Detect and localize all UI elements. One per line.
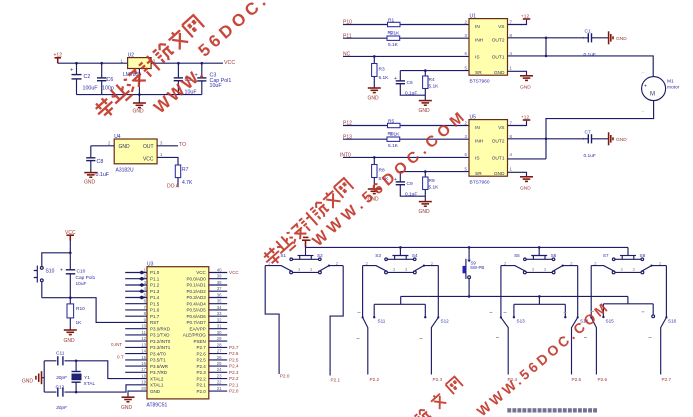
- svg-text:BTS7960: BTS7960: [470, 78, 490, 84]
- ground GND C7 (rotated): [609, 132, 628, 145]
- svg-text:25: 25: [217, 361, 222, 366]
- svg-text:OUT2: OUT2: [492, 38, 505, 44]
- svg-text:P1.5: P1.5: [150, 301, 160, 306]
- wire R4 top: [424, 71, 426, 76]
- svg-text:0.1uF: 0.1uF: [584, 52, 596, 58]
- wire C6 bottom: [101, 81, 103, 95]
- ground GND R4: [419, 101, 432, 114]
- resistor R1: [388, 17, 401, 26]
- svg-text:P2.1: P2.1: [197, 383, 207, 388]
- svg-text:37: 37: [217, 286, 222, 291]
- svg-text:+: +: [60, 268, 63, 274]
- svg-text:+: +: [583, 36, 586, 41]
- wire input rail: [58, 62, 128, 64]
- svg-text:C6: C6: [107, 77, 114, 83]
- svg-text:R5: R5: [388, 118, 394, 124]
- svg-text:30: 30: [217, 330, 222, 335]
- ground GND R8: [368, 189, 381, 203]
- svg-text:GND: GND: [520, 85, 531, 91]
- svg-text:GND: GND: [150, 389, 161, 394]
- svg-text:5.1K: 5.1K: [388, 143, 399, 149]
- power port VCC matrix rail: [302, 237, 311, 247]
- node junction R9: [424, 170, 427, 173]
- ground GND U1: [520, 76, 533, 91]
- svg-text:100uF: 100uF: [83, 86, 99, 92]
- svg-text:R9: R9: [429, 178, 435, 184]
- capacitor C10 Cap Pol1: [60, 268, 96, 288]
- IC U1 BTS7960: [465, 14, 513, 85]
- svg-text:A3182U: A3182U: [116, 168, 134, 174]
- IC U3 AT89C51: [147, 262, 209, 409]
- svg-text:5.1K: 5.1K: [390, 30, 401, 36]
- resistor R3: [372, 64, 390, 81]
- svg-text:TO: TO: [179, 142, 186, 148]
- svg-text:+: +: [70, 68, 73, 74]
- svg-text:P2.4: P2.4: [229, 364, 239, 369]
- node junction R3: [373, 55, 376, 58]
- wire C8 bottom: [90, 161, 92, 173]
- wire unit1 left to P2.0: [265, 266, 279, 374]
- capacitor C12: [56, 385, 69, 411]
- wires MCU right pins: [209, 273, 227, 392]
- svg-text:VCC: VCC: [224, 60, 235, 66]
- svg-text:P2.7: P2.7: [197, 345, 207, 350]
- capacitor C8: [86, 158, 110, 178]
- svg-text:−: −: [642, 109, 645, 114]
- svg-text:VCC: VCC: [229, 270, 239, 275]
- capacitor C2: [70, 68, 98, 92]
- svg-text:P3.5/T1: P3.5/T1: [150, 358, 166, 363]
- svg-text:P2.5: P2.5: [229, 357, 239, 362]
- power port +12: [54, 53, 63, 64]
- wire U4 pin3 OUT: [157, 145, 178, 147]
- svg-text:INH: INH: [475, 38, 484, 44]
- power port +12 U5: [521, 115, 530, 121]
- svg-text:0.1uF: 0.1uF: [96, 172, 110, 178]
- svg-text:SW-PB: SW-PB: [470, 265, 484, 270]
- svg-text:P1.7: P1.7: [150, 314, 160, 319]
- svg-text:P2.0: P2.0: [229, 389, 239, 394]
- capacitor C1: [583, 28, 596, 58]
- svg-text:34: 34: [217, 305, 222, 310]
- svg-text:S7: S7: [603, 253, 609, 258]
- svg-text:OUT2: OUT2: [492, 139, 505, 145]
- wire U5 pin1 GND: [508, 172, 527, 177]
- svg-text:OUT1: OUT1: [492, 156, 505, 162]
- caption title text: [507, 408, 597, 412]
- bus bar over S15/S16: [603, 296, 653, 317]
- wire C6 top: [101, 63, 103, 78]
- switch S13: [500, 266, 525, 382]
- resistor R6: [387, 137, 400, 149]
- svg-text:32: 32: [217, 317, 222, 322]
- wire S10 bottom: [41, 282, 43, 298]
- resistor R7: [175, 165, 193, 186]
- svg-text:U3: U3: [147, 262, 154, 268]
- svg-text:0.INT: 0.INT: [111, 342, 122, 347]
- svg-text:RST: RST: [150, 320, 159, 325]
- svg-text:22: 22: [217, 380, 222, 385]
- wire U4 pin1 VCC: [157, 157, 178, 165]
- pushbutton pair S3/S4: [375, 247, 418, 260]
- wire U1 pin7 VS: [508, 20, 527, 25]
- svg-text:Cap Pol1: Cap Pol1: [76, 275, 96, 281]
- svg-text:P2.3: P2.3: [433, 377, 443, 382]
- svg-text:C7: C7: [585, 129, 591, 135]
- svg-text:GND: GND: [419, 108, 431, 114]
- rocker switch contacts unit 4: [591, 261, 666, 274]
- wire OUT2-OUT1 tie: [545, 38, 547, 56]
- wire R8 top: [373, 157, 375, 164]
- ground GND regulator: [133, 103, 146, 115]
- wire C5 top: [177, 63, 179, 78]
- svg-text:S8: S8: [640, 253, 646, 258]
- svg-text:C8: C8: [97, 159, 104, 165]
- svg-text:U2: U2: [128, 53, 135, 59]
- svg-text:S2: S2: [317, 253, 323, 258]
- bus bar over S13/S14: [514, 296, 565, 317]
- node junction OUT2 U5: [545, 138, 548, 141]
- svg-text:S5: S5: [514, 253, 520, 258]
- wire R3 bottom: [373, 77, 375, 89]
- svg-text:10uF: 10uF: [210, 83, 223, 89]
- svg-text:S16: S16: [668, 318, 677, 323]
- crystal circuit top wire: [44, 361, 147, 379]
- wire NC line: [343, 55, 469, 57]
- svg-text:38: 38: [217, 280, 222, 285]
- capacitor C9: [394, 177, 417, 197]
- svg-text:P2.6: P2.6: [598, 377, 608, 382]
- svg-text:P1.2: P1.2: [150, 283, 160, 288]
- svg-text:XTAL1: XTAL1: [150, 383, 164, 388]
- wire R10 bottom: [69, 318, 71, 330]
- wire to switch S10: [42, 253, 71, 267]
- wire SR line U5 pin5: [400, 171, 469, 173]
- svg-text:P0.5/AD5: P0.5/AD5: [187, 308, 207, 313]
- pin numbers left: [141, 267, 146, 391]
- node junction OUT2: [545, 37, 548, 40]
- svg-text:BTS7960: BTS7960: [470, 179, 490, 185]
- svg-text:OUT: OUT: [143, 144, 154, 150]
- IC U5 BTS7960: [465, 115, 513, 186]
- svg-text:C9: C9: [407, 181, 413, 187]
- svg-text:P1.4: P1.4: [150, 295, 160, 300]
- wire C3 top: [201, 63, 203, 78]
- svg-text:C2: C2: [84, 74, 91, 80]
- ground GND crystal (rotated): [22, 371, 44, 384]
- svg-text:IN: IN: [475, 125, 480, 131]
- svg-text:P2.3: P2.3: [229, 370, 239, 375]
- bus bar over S11/S12: [374, 296, 425, 317]
- svg-text:21: 21: [217, 386, 222, 391]
- svg-text:P2.0: P2.0: [280, 374, 290, 379]
- svg-text:+: +: [583, 137, 586, 142]
- svg-text:P2.2: P2.2: [197, 376, 207, 381]
- svg-text:VCC: VCC: [196, 270, 206, 275]
- svg-text:P0.0/AD0: P0.0/AD0: [187, 276, 207, 281]
- svg-text:Y1: Y1: [84, 375, 90, 381]
- svg-text:DO A: DO A: [167, 184, 180, 190]
- switch S10: [34, 266, 55, 283]
- switch S16: [661, 266, 677, 382]
- svg-text:23: 23: [217, 374, 222, 379]
- svg-text:GND: GND: [133, 109, 145, 115]
- watermark B CJK line: [261, 178, 354, 269]
- svg-text:S12: S12: [441, 318, 450, 323]
- svg-text:GND: GND: [64, 338, 76, 344]
- svg-text:P0.6/AD6: P0.6/AD6: [187, 314, 207, 319]
- resistor R5: [388, 118, 401, 127]
- wire U4 pin2: [91, 145, 114, 147]
- svg-text:GND: GND: [494, 171, 505, 177]
- svg-text:U1: U1: [470, 14, 477, 20]
- svg-text:P2.3: P2.3: [197, 370, 207, 375]
- svg-text:GND: GND: [520, 186, 531, 192]
- resistor R9: [423, 177, 440, 190]
- svg-text:GND: GND: [368, 96, 380, 102]
- svg-text:P1.6: P1.6: [150, 308, 160, 313]
- svg-text:AT89C51: AT89C51: [147, 402, 168, 408]
- svg-text:29: 29: [217, 336, 222, 341]
- svg-text:P2.0: P2.0: [197, 389, 207, 394]
- svg-text:P2.7: P2.7: [229, 345, 239, 350]
- svg-text:+: +: [644, 84, 647, 90]
- wire VCC down: [69, 240, 71, 270]
- capacitor C11: [56, 350, 68, 381]
- wire U1 pin1 GND: [508, 71, 527, 76]
- node junction R4: [424, 69, 427, 72]
- svg-text:C6: C6: [407, 80, 413, 86]
- svg-text:P0.7/AD7: P0.7/AD7: [187, 320, 207, 325]
- svg-text:SR: SR: [475, 171, 482, 177]
- svg-text:OUT1: OUT1: [492, 55, 505, 61]
- svg-text:M: M: [650, 92, 655, 98]
- svg-text:SR: SR: [475, 70, 482, 76]
- svg-text:GND: GND: [119, 144, 131, 150]
- svg-text:M1: M1: [667, 78, 674, 84]
- svg-text:P2.5: P2.5: [572, 377, 582, 382]
- ground GND R9: [419, 202, 432, 215]
- svg-text:35: 35: [217, 299, 222, 304]
- svg-text:XTAL2: XTAL2: [150, 376, 164, 381]
- svg-text:P3.0/RXD: P3.0/RXD: [150, 326, 171, 331]
- svg-text:R1: R1: [388, 17, 394, 23]
- wire P12 line: [343, 125, 469, 127]
- svg-text:GND: GND: [121, 405, 133, 411]
- svg-text:VS: VS: [498, 125, 504, 131]
- wire crystal left: [43, 361, 45, 392]
- wire C9 top: [399, 172, 401, 182]
- svg-text:26: 26: [217, 355, 222, 360]
- wire reset row: [42, 298, 147, 323]
- capacitor C7: [583, 129, 596, 159]
- ground GND R3: [368, 88, 381, 102]
- pin tick marks: [357, 311, 652, 338]
- svg-text:IN: IN: [475, 24, 480, 30]
- wire P10 line: [343, 24, 469, 26]
- wire U5 pin7 VS: [508, 121, 527, 126]
- switch S11: [362, 266, 386, 382]
- wire U1 pin8 OUT2: [508, 37, 589, 39]
- svg-text:P2.4: P2.4: [197, 364, 207, 369]
- wire S9 bus line: [401, 295, 628, 297]
- svg-text:S11: S11: [378, 318, 386, 323]
- wire top rail: [306, 246, 629, 248]
- pushbutton pair S5/S6: [514, 247, 557, 260]
- svg-text:+12: +12: [521, 14, 529, 20]
- capacitor C5: [174, 77, 198, 96]
- svg-text:P2.5: P2.5: [197, 358, 207, 363]
- ground GND C1 (rotated): [609, 31, 628, 44]
- svg-text:S6: S6: [551, 253, 557, 258]
- wire R7 bottom: [177, 178, 179, 187]
- wire C6b bottom to R4 bottom: [400, 84, 425, 96]
- switch S14: [572, 266, 589, 382]
- power port +12 U1: [521, 14, 530, 20]
- rocker switch contacts unit 3: [501, 261, 578, 274]
- capacitor C3 Cap Pol1: [195, 73, 232, 89]
- svg-text:P2.7: P2.7: [662, 377, 672, 382]
- svg-text:28: 28: [217, 342, 222, 347]
- svg-text:12: 12: [141, 336, 146, 341]
- svg-text:P1.3: P1.3: [150, 289, 160, 294]
- svg-text:5.1K: 5.1K: [388, 42, 399, 48]
- wire C1 to gnd: [592, 37, 609, 39]
- pushbutton pair S7/S8: [603, 247, 646, 260]
- regulator U2 LM7805: [121, 53, 156, 78]
- node junction crystal top: [75, 360, 78, 363]
- svg-text:GND: GND: [22, 379, 34, 385]
- svg-text:IS: IS: [475, 156, 480, 162]
- wires MCU left pins: [125, 273, 147, 373]
- rocker switch contacts unit 1: [265, 261, 343, 274]
- svg-text:P2.1: P2.1: [229, 382, 239, 387]
- wire C7 to gnd: [592, 138, 609, 140]
- switch S15: [590, 266, 614, 382]
- svg-text:27: 27: [217, 349, 222, 354]
- crystal circuit bottom wire: [44, 385, 147, 392]
- wire C2 bottom: [76, 79, 78, 95]
- wire R3 top: [373, 56, 375, 63]
- node junction C5: [177, 62, 180, 65]
- svg-text:40: 40: [217, 267, 222, 272]
- wire C8 top: [90, 146, 92, 158]
- svg-text:P2.6: P2.6: [197, 351, 207, 356]
- svg-text:0.1uF: 0.1uF: [584, 153, 596, 159]
- svg-text:15: 15: [141, 355, 146, 360]
- svg-text:30pF: 30pF: [56, 375, 68, 381]
- rocker switch contacts unit 2: [363, 261, 439, 274]
- svg-text:5.1K: 5.1K: [429, 184, 440, 190]
- ground GND C8: [84, 173, 97, 186]
- svg-text:P2.2: P2.2: [370, 377, 380, 382]
- svg-text:P3.1/TXD: P3.1/TXD: [150, 333, 170, 338]
- pushbutton pair S1/S2: [280, 247, 323, 260]
- svg-text:5.1K: 5.1K: [379, 75, 390, 81]
- svg-text:1K: 1K: [76, 320, 83, 326]
- svg-text:P3.3/INT1: P3.3/INT1: [150, 345, 171, 350]
- svg-text:10: 10: [141, 324, 146, 329]
- wire unit1 right to P2.1: [330, 266, 343, 376]
- net labels right (VCC, P2.x): [229, 270, 239, 394]
- svg-text:PSEN: PSEN: [194, 339, 206, 344]
- IC U4 A3182U: [114, 134, 157, 174]
- svg-text:R10: R10: [76, 306, 85, 312]
- svg-text:P3.2/INT0: P3.2/INT0: [150, 339, 171, 344]
- svg-text:13: 13: [141, 342, 146, 347]
- svg-text:5.1K: 5.1K: [429, 83, 440, 89]
- svg-text:+12: +12: [521, 115, 529, 121]
- power port VCC: [65, 230, 76, 241]
- watermark A CJK line: [92, 15, 204, 121]
- svg-text:GND: GND: [84, 180, 96, 186]
- svg-text:ALE/PROG: ALE/PROG: [183, 333, 207, 338]
- svg-text:S3: S3: [375, 253, 381, 258]
- wire U1 pin4 OUT1: [508, 56, 654, 77]
- svg-text:INH: INH: [475, 139, 484, 145]
- wire INT0 line: [343, 156, 469, 158]
- pin arrows P1.0-P1.4: [139, 271, 145, 300]
- pin numbers right: [217, 267, 222, 391]
- svg-text:P3.6/WR: P3.6/WR: [150, 364, 169, 369]
- svg-text:S15: S15: [606, 318, 615, 323]
- svg-text:GND: GND: [616, 36, 627, 42]
- svg-text:P3.7/RD: P3.7/RD: [150, 370, 168, 375]
- svg-text:C10: C10: [77, 269, 86, 275]
- svg-text:GND: GND: [616, 137, 627, 143]
- svg-text:EA/VPP: EA/VPP: [190, 326, 206, 331]
- svg-text:−: −: [642, 70, 645, 75]
- wire R9 top: [424, 172, 426, 177]
- svg-text:GND: GND: [419, 209, 431, 215]
- wire C2 top: [76, 63, 78, 74]
- node junction C3: [201, 62, 204, 65]
- svg-text:U4: U4: [114, 134, 121, 140]
- wire U2 pin2 down: [138, 69, 140, 104]
- svg-text:11: 11: [142, 330, 147, 335]
- wire R4 bottom: [424, 89, 426, 101]
- svg-text:R3: R3: [379, 67, 385, 73]
- svg-text:P1.0: P1.0: [150, 270, 160, 275]
- ground GND R10: [64, 330, 77, 344]
- svg-text:10uF: 10uF: [76, 281, 87, 287]
- svg-text:P3.4/T0: P3.4/T0: [150, 351, 166, 356]
- label overlap R6 / 5.1K: [388, 131, 401, 137]
- svg-text:C1: C1: [585, 28, 591, 34]
- wire P11 line: [343, 37, 469, 39]
- resistor R4: [423, 76, 440, 89]
- resistor R10: [67, 298, 85, 326]
- wire U5 pin8 OUT2: [508, 138, 589, 140]
- svg-text:31: 31: [217, 324, 222, 329]
- node junction C6: [100, 62, 103, 65]
- crystal Y1 XTAL: [72, 361, 96, 392]
- ground GND pin20: [121, 397, 135, 411]
- wire SR line U1 pin5: [400, 70, 469, 72]
- wire pin20 gnd: [128, 391, 147, 397]
- svg-text:VCC: VCC: [143, 156, 154, 162]
- svg-text:S4: S4: [412, 253, 418, 258]
- svg-text:0.T: 0.T: [117, 354, 124, 359]
- svg-text:P0.1/AD1: P0.1/AD1: [187, 283, 207, 288]
- svg-text:P0.4/AD4: P0.4/AD4: [187, 301, 207, 306]
- svg-text:P1.1: P1.1: [150, 276, 160, 281]
- svg-text:P0.3/AD3: P0.3/AD3: [187, 295, 207, 300]
- svg-text:C11: C11: [56, 350, 65, 356]
- svg-text:XTAL: XTAL: [84, 381, 96, 387]
- svg-text:36: 36: [217, 292, 222, 297]
- svg-text:16: 16: [141, 361, 146, 366]
